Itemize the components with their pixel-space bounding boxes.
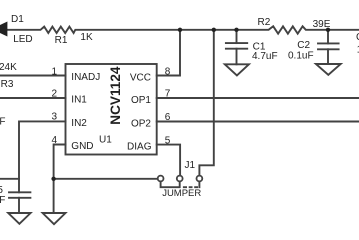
- svg-text:5: 5: [165, 135, 171, 146]
- svg-text:NCV1124: NCV1124: [108, 66, 123, 125]
- svg-text:0.1uF: 0.1uF: [288, 51, 314, 62]
- svg-text:1: 1: [51, 66, 57, 77]
- svg-text:R3: R3: [1, 79, 14, 90]
- svg-text:OP1: OP1: [131, 95, 151, 106]
- svg-text:J1: J1: [185, 160, 196, 171]
- svg-text:C2: C2: [297, 40, 310, 51]
- svg-text:IN2: IN2: [71, 118, 87, 129]
- svg-text:U1: U1: [99, 134, 112, 145]
- svg-text:JUMPER: JUMPER: [162, 188, 201, 199]
- svg-text:2: 2: [51, 89, 57, 100]
- svg-text:4: 4: [51, 135, 57, 146]
- svg-text:R1: R1: [55, 35, 68, 46]
- svg-text:VCC: VCC: [130, 73, 151, 84]
- svg-text:LED: LED: [13, 34, 32, 45]
- svg-text:OP2: OP2: [131, 118, 151, 129]
- svg-text:D1: D1: [11, 14, 24, 25]
- svg-text:R2: R2: [258, 17, 271, 28]
- svg-text:IN1: IN1: [71, 95, 87, 106]
- svg-text:24K: 24K: [0, 62, 17, 73]
- svg-text:7: 7: [165, 88, 171, 99]
- svg-text:1K: 1K: [80, 32, 93, 43]
- svg-text:INADJ: INADJ: [71, 72, 100, 83]
- svg-text:DIAG: DIAG: [127, 141, 152, 152]
- svg-text:39E: 39E: [313, 19, 331, 30]
- svg-text:8: 8: [165, 66, 171, 77]
- svg-text:4.7uF: 4.7uF: [252, 51, 278, 62]
- svg-text:GND: GND: [71, 141, 93, 152]
- svg-text:F: F: [0, 116, 6, 127]
- svg-text:F: F: [0, 195, 5, 206]
- svg-text:3: 3: [51, 111, 57, 122]
- svg-text:6: 6: [165, 112, 171, 123]
